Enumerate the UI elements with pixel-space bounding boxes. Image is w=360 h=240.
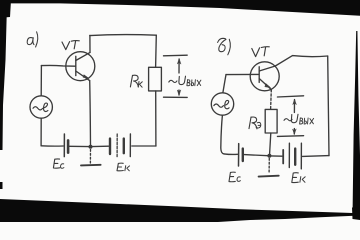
wire emitter to Re circuit b: [270, 90, 273, 110]
wire source bottom circuit a: [40, 118, 42, 146]
node junction circuit a: [89, 145, 93, 149]
wire below Re: [270, 133, 271, 154]
wire dotted to ground circuit b: [268, 158, 270, 172]
battery Ek circuit a: [110, 134, 130, 157]
wire top rail circuit a: [90, 35, 157, 36]
wire right vertical circuit b: [328, 56, 329, 156]
wire bottom rail left circuit a: [41, 145, 63, 147]
wire dotted to ground circuit a: [89, 150, 91, 164]
ground bar circuit a: [81, 164, 101, 167]
output marker circuit a: [164, 55, 188, 97]
wire base circuit b: [226, 73, 259, 75]
AC source e circuit b: [211, 93, 233, 115]
label b): [218, 38, 231, 55]
scan border top-left block: [0, 0, 11, 18]
label RK: [130, 75, 142, 87]
AC source e circuit a: [30, 96, 52, 118]
wire Ec to junction circuit b: [244, 155, 268, 156]
wire Ek to right vertical: [132, 145, 156, 147]
wire junction to Ek circuit b: [271, 155, 282, 157]
battery Ec circuit a: [64, 134, 68, 157]
output marker circuit b: [277, 96, 303, 137]
label VT circuit a: [62, 41, 79, 50]
label Uout circuit a: [169, 76, 186, 84]
transistor VT circuit a: [66, 52, 95, 81]
wire junction to Ek: [92, 145, 109, 147]
ground bar circuit b: [259, 175, 279, 178]
wire source top circuit a: [40, 66, 42, 96]
wire source bottom circuit b: [221, 115, 224, 154]
wire Ec to junction: [70, 145, 90, 147]
label Ec circuit a: [53, 159, 64, 168]
scan border top band: [0, 0, 360, 16]
wire top rail circuit b: [275, 56, 327, 66]
battery Ec circuit b: [239, 144, 243, 166]
wire right vertical to Rk: [155, 35, 158, 67]
label VT circuit b: [252, 47, 269, 57]
label Ek circuit b: [292, 173, 305, 183]
label Re: [249, 117, 261, 129]
wire emitter drop circuit a: [89, 81, 92, 147]
battery Ek circuit b: [283, 143, 301, 169]
transistor VT circuit b: [250, 62, 279, 91]
wire base circuit a: [41, 64, 75, 67]
label Ek circuit a: [117, 163, 130, 171]
label Ec circuit b: [229, 172, 240, 182]
label a): [27, 32, 38, 47]
resistor Re body: [265, 109, 277, 133]
wire bottom rail to Ec circuit b: [224, 153, 238, 156]
scan border left tick: [0, 182, 3, 189]
wire base to source circuit b: [223, 75, 226, 93]
resistor RK body: [149, 67, 162, 91]
scan border bottom-right block: [352, 208, 360, 221]
wire collector drop circuit a: [89, 35, 91, 52]
scan border bottom band: [0, 199, 360, 222]
node junction circuit b: [267, 154, 271, 158]
scan border right strip: [353, 31, 360, 213]
label Uout circuit b: [284, 114, 298, 122]
wire below Rk: [155, 91, 157, 146]
scan border left strip: [0, 3, 7, 150]
wire Ek to right vertical circuit b: [303, 155, 330, 158]
